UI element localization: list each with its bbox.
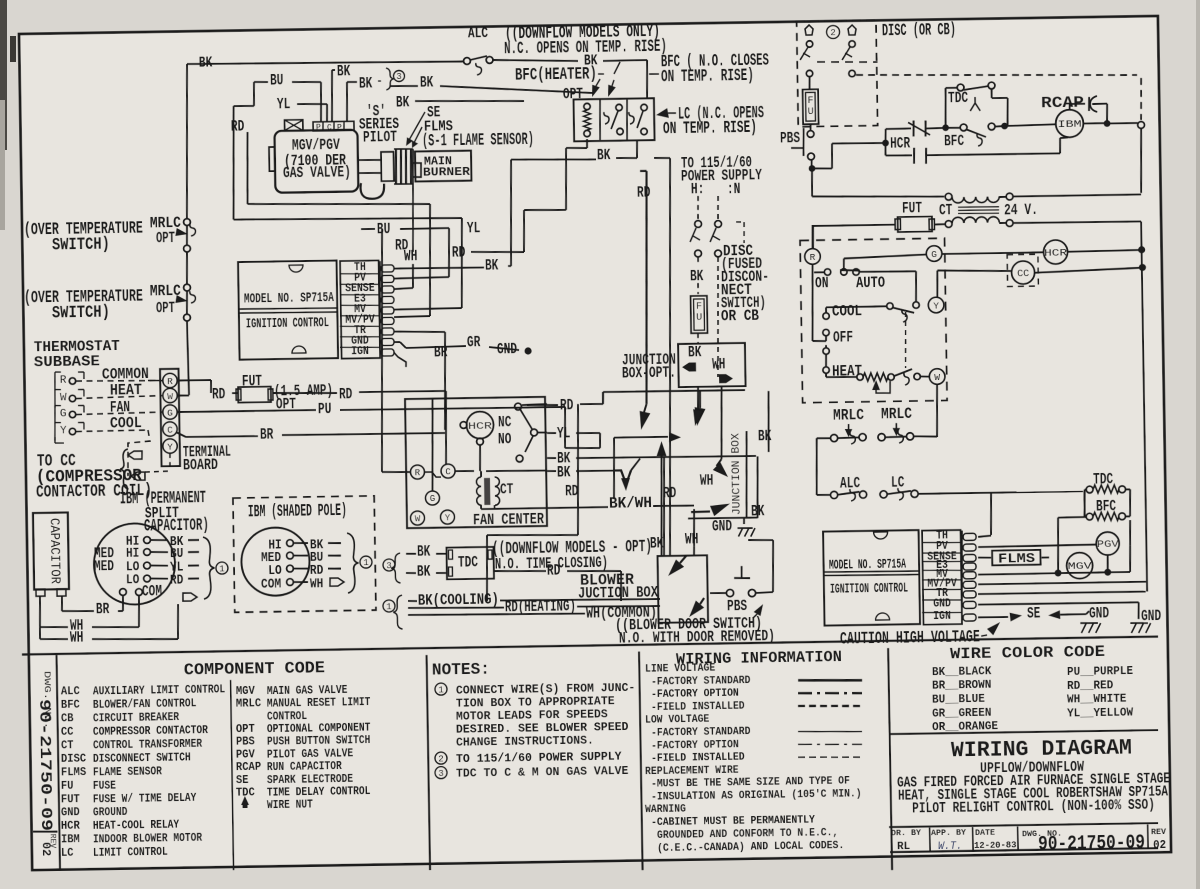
svg-text:MGV: MGV <box>1068 562 1092 573</box>
svg-text:MED: MED <box>94 559 115 575</box>
note 1 bracket blower leads <box>383 600 395 612</box>
wire RD heating <box>408 607 504 610</box>
svg-text:W: W <box>415 514 421 524</box>
junction box opt <box>678 343 745 387</box>
svg-text:MANUAL RESET LIMIT: MANUAL RESET LIMIT <box>267 696 371 711</box>
svg-text:LO: LO <box>126 572 140 588</box>
brace PSC <box>203 537 215 599</box>
wire arrows into blower box <box>668 559 684 576</box>
svg-text:RCAP: RCAP <box>236 761 261 774</box>
svg-text:RD: RD <box>637 183 651 201</box>
dashed link cool-heat <box>905 312 907 368</box>
svg-text:BK: BK <box>758 427 772 445</box>
svg-text:OFF: OFF <box>833 328 853 346</box>
svg-text:PBS: PBS <box>780 129 801 147</box>
terminal board strip <box>160 369 180 467</box>
pin strip (right module) <box>922 530 962 625</box>
svg-text:90-21750-09: 90-21750-09 <box>1038 832 1145 857</box>
wire OFF chain <box>813 340 827 343</box>
svg-text:CAPACITOR: CAPACITOR <box>45 518 61 584</box>
disconnect switch blades <box>690 228 696 242</box>
code wire nut <box>241 796 249 805</box>
svg-text:ON: ON <box>815 274 829 292</box>
wire BR capacitor <box>61 596 64 611</box>
switch ALC right <box>830 491 837 498</box>
svg-text:COMPONENT CODE: COMPONENT CODE <box>184 659 325 680</box>
wire IBM to rail <box>1083 122 1104 124</box>
svg-text:REPLACEMENT WIRE: REPLACEMENT WIRE <box>645 765 739 778</box>
transformer CT fan <box>480 471 482 477</box>
svg-text:RD: RD <box>547 561 561 579</box>
component code panel <box>427 655 431 870</box>
pin SENSE (left module) <box>381 286 394 293</box>
svg-text:G: G <box>60 408 67 420</box>
svg-text:-FIELD INSTALLED: -FIELD INSTALLED <box>651 701 745 714</box>
svg-text:IBM: IBM <box>61 833 80 846</box>
svg-text::N: :N <box>727 180 741 198</box>
switch NC NO fan <box>515 403 522 410</box>
svg-text:LC: LC <box>61 847 74 860</box>
svg-text:BOARD: BOARD <box>183 456 218 475</box>
svg-text:BK: BK <box>751 502 765 520</box>
svg-text:RD: RD <box>339 385 353 403</box>
svg-text:WH: WH <box>310 576 324 592</box>
svg-text:LOW VOLTAGE: LOW VOLTAGE <box>645 714 710 727</box>
svg-text:IBM: IBM <box>1057 120 1081 131</box>
svg-text:PU__PURPLE: PU__PURPLE <box>1067 665 1133 679</box>
valve MGV circle <box>1066 552 1092 578</box>
transformer CT secondary <box>945 221 952 228</box>
main burner box <box>415 151 471 182</box>
ignition control module U1 (left) <box>238 261 338 360</box>
wire loop to MV pin <box>234 216 462 222</box>
svg-text:FUSE W/ TIME DELAY: FUSE W/ TIME DELAY <box>93 792 197 807</box>
svg-text:NO: NO <box>498 430 512 448</box>
wire arrow lower into junction <box>691 510 710 513</box>
wire PU from G <box>177 410 316 412</box>
svg-text:P: P <box>316 123 321 132</box>
pilot burner assembly <box>381 152 394 181</box>
svg-text:HEAT-COOL RELAY: HEAT-COOL RELAY <box>93 819 179 833</box>
wire Y to CC <box>936 271 939 298</box>
svg-text:R: R <box>415 468 421 478</box>
svg-text:3: 3 <box>386 561 392 571</box>
wiring information panel <box>639 652 643 871</box>
wire primary left <box>811 168 814 196</box>
wire fan G internal <box>431 400 434 492</box>
svg-text:G: G <box>931 249 937 260</box>
pin IGN (left module) <box>381 349 394 356</box>
svg-text:BK: BK <box>688 343 702 361</box>
svg-text:PGV: PGV <box>1097 540 1119 551</box>
wire BK TDC stub 1 <box>406 553 416 555</box>
relay HCR coil circle <box>466 411 493 438</box>
svg-text:R: R <box>810 252 816 263</box>
thermostat terminal R <box>805 249 821 265</box>
svg-text:P: P <box>337 123 342 132</box>
svg-text:TDC TO C & M ON GAS VALVE: TDC TO C & M ON GAS VALVE <box>456 765 629 781</box>
wire fan internal bottom <box>481 508 547 509</box>
svg-text:BK: BK <box>199 55 213 71</box>
svg-text:RD: RD <box>565 482 579 500</box>
pin TR (right module) <box>963 591 976 598</box>
junction box bracket <box>745 431 748 518</box>
wire GND to GR GND <box>394 341 400 343</box>
svg-text:DISCONNECT SWITCH: DISCONNECT SWITCH <box>93 751 191 766</box>
svg-text:WIRING DIAGRAM: WIRING DIAGRAM <box>951 736 1132 764</box>
note 1 <box>435 683 447 695</box>
dashed wires to subbase <box>76 380 162 382</box>
wire arrow mid <box>695 407 706 426</box>
svg-text:3: 3 <box>438 769 444 779</box>
wire BFC left down <box>1058 516 1084 519</box>
svg-text:WH__WHITE: WH__WHITE <box>1067 693 1127 707</box>
wire RD down to fan C <box>445 391 447 464</box>
svg-text:GROUND: GROUND <box>93 806 128 820</box>
svg-text:HEAT: HEAT <box>110 381 143 400</box>
svg-text:MRLC: MRLC <box>236 697 261 710</box>
wire nut 1 <box>805 25 813 35</box>
svg-text:MGV: MGV <box>236 685 255 698</box>
wire secondary left to R <box>813 225 895 226</box>
wire secondary right rail <box>1013 221 1141 224</box>
svg-text:CONTROL: CONTROL <box>267 710 307 724</box>
capacitor C1 box <box>33 512 69 589</box>
motor IBM shaded pole dashed box <box>233 496 376 613</box>
svg-text:MODEL NO. SP715A: MODEL NO. SP715A <box>829 557 907 573</box>
svg-text:RD: RD <box>212 385 226 403</box>
svg-text:FUSE: FUSE <box>93 779 116 792</box>
wire BK row2 <box>547 470 556 472</box>
svg-text:BFC(HEATER): BFC(HEATER) <box>515 65 597 85</box>
svg-text:FUT: FUT <box>61 793 80 806</box>
svg-text:RD: RD <box>170 572 184 588</box>
svg-text:FLMS: FLMS <box>998 551 1035 568</box>
svg-text:MRLC: MRLC <box>150 282 182 300</box>
svg-text:2: 2 <box>830 28 836 38</box>
wire TH riser <box>990 494 991 536</box>
svg-text:3: 3 <box>396 72 402 82</box>
svg-text:FAN CENTER: FAN CENTER <box>473 510 545 529</box>
valve top connector with X <box>284 120 302 131</box>
svg-text:COOL: COOL <box>832 302 862 320</box>
svg-text:BK: BK <box>557 463 571 481</box>
resistor OPT vertical <box>584 103 591 110</box>
terminal C board <box>163 422 178 437</box>
svg-text:MRLC: MRLC <box>881 405 913 423</box>
svg-text:CHANGE INSTRUCTIONS.: CHANGE INSTRUCTIONS. <box>456 734 594 749</box>
svg-text:FLMS: FLMS <box>61 766 86 779</box>
svg-text:LIMIT CONTROL: LIMIT CONTROL <box>93 846 168 860</box>
wire BK TDC stub 2 <box>406 572 416 574</box>
wire G to fan switch <box>844 254 926 258</box>
pin MV (left module) <box>381 307 394 314</box>
svg-text:ON TEMP. RISE): ON TEMP. RISE) <box>661 67 754 87</box>
fan center box <box>405 397 547 528</box>
terminal W board <box>163 388 178 403</box>
wires below junction box opt <box>697 386 700 410</box>
thermostat terminal G <box>926 246 942 262</box>
svg-text:CT: CT <box>939 201 953 219</box>
svg-text:BK: BK <box>485 256 499 274</box>
fuse FU mid <box>691 296 708 334</box>
fan terminal Y <box>440 510 454 524</box>
terminal Y board <box>163 439 178 454</box>
brace shaded pole <box>347 533 359 593</box>
pushbutton PBS blower door <box>726 589 733 596</box>
resistor TDC <box>1086 486 1093 493</box>
wire IGN diagonal <box>394 352 406 367</box>
svg-text:G: G <box>167 407 173 418</box>
svg-text:TIME DELAY CONTROL: TIME DELAY CONTROL <box>267 785 371 800</box>
svg-text:IGN: IGN <box>351 344 369 358</box>
pin GND (left module) <box>381 338 394 345</box>
svg-text:NC: NC <box>498 413 512 431</box>
pin PV (right module) <box>963 544 976 551</box>
wire nut 2 <box>848 25 856 35</box>
svg-text:CIRCUIT BREAKER: CIRCUIT BREAKER <box>93 711 179 725</box>
fan terminal W <box>410 511 424 525</box>
svg-text:PU: PU <box>318 400 332 418</box>
svg-text:90-21750-09: 90-21750-09 <box>35 699 55 831</box>
svg-text:BU__BLUE: BU__BLUE <box>932 693 985 707</box>
svg-text:RD: RD <box>560 396 574 414</box>
svg-text:GND: GND <box>1089 604 1109 622</box>
switch COOL <box>826 306 886 307</box>
wire LC chain to TDC loop <box>918 491 1083 494</box>
wire fan R internal <box>382 471 410 474</box>
svg-text:C: C <box>327 123 332 132</box>
wire W down <box>936 384 938 437</box>
pin IGN (right module) <box>963 614 976 621</box>
svg-text:BK: BK <box>396 93 410 111</box>
svg-text:HCR: HCR <box>61 820 80 833</box>
svg-text:ALC: ALC <box>468 26 489 42</box>
dashed DISC box fragment <box>736 221 744 223</box>
svg-text:-FACTORY OPTION: -FACTORY OPTION <box>651 739 739 752</box>
pin MV (right module) <box>963 572 976 579</box>
note 2 circled <box>826 25 839 38</box>
note 3 <box>435 767 447 779</box>
wire WH flame sensor to SENSE <box>411 149 414 252</box>
wire BK row1 <box>455 470 474 473</box>
pin E3 (right module) <box>963 563 976 570</box>
wire MV/PV row <box>978 582 1146 585</box>
svg-text:PBS: PBS <box>727 597 748 615</box>
wire BR from C <box>176 432 186 437</box>
contactor CC circle <box>1007 254 1038 286</box>
svg-text:-FACTORY STANDARD: -FACTORY STANDARD <box>651 726 751 740</box>
pin TH (right module) <box>963 533 976 540</box>
wire color code panel <box>888 648 892 870</box>
svg-text:Y: Y <box>167 441 173 452</box>
svg-text:DISC: DISC <box>61 752 86 765</box>
dashed DISC OR CB box <box>797 20 878 127</box>
wire IGN SE spark <box>978 616 1008 619</box>
wires to CC arrows <box>169 453 171 470</box>
svg-text:F: F <box>696 302 702 313</box>
terminal G board <box>163 405 178 420</box>
svg-text:WIRE NUT: WIRE NUT <box>267 799 313 813</box>
thermostat terminal Y <box>928 297 944 313</box>
switch MRLC r1 <box>830 434 837 441</box>
fan terminal C <box>441 464 455 478</box>
wire arrow to junction right <box>614 436 668 439</box>
svg-text:BU: BU <box>270 71 284 89</box>
pin MV/PV (left module) <box>381 317 394 324</box>
switch MRLC over-temp 1 <box>184 219 191 226</box>
svg-text:DISC (OR CB): DISC (OR CB) <box>882 21 956 41</box>
svg-text:OPT: OPT <box>156 299 176 317</box>
switch MRLC r2 <box>878 434 885 441</box>
motor IBM right circle <box>1056 109 1084 137</box>
title block signature strip <box>889 823 1158 828</box>
svg-text:C: C <box>167 424 173 435</box>
svg-text:BFC: BFC <box>944 132 965 150</box>
fan terminal G <box>425 491 439 505</box>
svg-text:W: W <box>60 392 67 404</box>
wire GND row <box>978 602 1139 605</box>
svg-text:BK: BK <box>359 74 373 92</box>
wire BK cooling <box>408 600 417 602</box>
svg-text:DR. BY: DR. BY <box>891 828 922 838</box>
capacitor terminals <box>36 589 45 596</box>
wire WH capacitor 2 <box>39 627 41 639</box>
flame sensor FLMS box <box>978 556 991 558</box>
svg-text:PUSH BUTTON SWITCH: PUSH BUTTON SWITCH <box>267 734 371 749</box>
pin GND (right module) <box>963 601 976 608</box>
svg-text:REV: REV <box>1151 827 1167 837</box>
svg-text:MRLC: MRLC <box>833 406 865 424</box>
wire dashed rail right <box>856 71 1137 80</box>
svg-text:BK__BLACK: BK__BLACK <box>932 665 992 679</box>
motor COM taps <box>119 589 126 596</box>
svg-text:F: F <box>807 96 813 107</box>
svg-text:-FACTORY OPTION: -FACTORY OPTION <box>651 688 739 701</box>
svg-text:COM: COM <box>261 576 281 592</box>
svg-text:IGNITION CONTROL: IGNITION CONTROL <box>830 581 908 597</box>
svg-text:JUNCTION BOX: JUNCTION BOX <box>730 433 743 516</box>
svg-text:SWITCH): SWITCH) <box>52 236 110 256</box>
svg-text:WARNING: WARNING <box>645 804 686 817</box>
svg-text:BR: BR <box>96 600 110 618</box>
svg-text:IGN: IGN <box>933 609 951 623</box>
valve PGV circle <box>1096 532 1119 555</box>
wire WH capacitor 1 <box>38 596 41 627</box>
pin strip (left module) <box>340 260 380 358</box>
svg-text:DESIRED. SEE BLOWER SPEED: DESIRED. SEE BLOWER SPEED <box>456 721 629 737</box>
wire BK THpin elbow <box>394 267 484 269</box>
svg-text:FLAME SENSOR: FLAME SENSOR <box>93 765 162 779</box>
svg-text:HCR: HCR <box>890 134 911 152</box>
svg-text:GND: GND <box>497 340 517 358</box>
svg-text:GR__GREEN: GR__GREEN <box>932 707 992 721</box>
svg-text:OPT: OPT <box>563 85 584 103</box>
svg-text:PGV: PGV <box>236 748 255 761</box>
svg-text:ON TEMP. RISE): ON TEMP. RISE) <box>663 119 757 139</box>
svg-text:H:: H: <box>691 180 705 198</box>
title block <box>890 730 1158 734</box>
svg-text:AUTO: AUTO <box>856 274 885 292</box>
svg-text:2: 2 <box>438 754 444 764</box>
terminal R board <box>163 373 178 388</box>
note 2 <box>435 752 447 764</box>
svg-text:COM: COM <box>142 582 162 600</box>
svg-text:IBM (SHADED POLE): IBM (SHADED POLE) <box>248 502 347 523</box>
thermostat terminal W <box>929 369 945 385</box>
switch ALC top <box>464 58 471 65</box>
svg-text:CONTROL TRANSFORMER: CONTROL TRANSFORMER <box>93 738 202 753</box>
svg-text:NOTES:: NOTES: <box>432 661 490 681</box>
svg-text:1: 1 <box>386 602 392 612</box>
svg-text:BK: BK <box>420 73 434 91</box>
svg-text:BOX-OPT.: BOX-OPT. <box>622 364 676 383</box>
scan edge artifacts <box>0 0 7 150</box>
svg-text:RD: RD <box>231 117 245 135</box>
svg-text:INDOOR BLOWER MOTOR: INDOOR BLOWER MOTOR <box>93 832 202 847</box>
svg-text:C: C <box>445 467 451 477</box>
svg-text:OR CB: OR CB <box>721 307 760 326</box>
wire RD from TDC <box>494 570 546 572</box>
svg-text:N.C. OPENS ON TEMP. RISE): N.C. OPENS ON TEMP. RISE) <box>504 38 667 60</box>
svg-text:U: U <box>696 313 702 324</box>
switch BFC right <box>960 124 967 131</box>
svg-text:BK: BK <box>597 146 611 164</box>
svg-text:BK(COOLING): BK(COOLING) <box>418 590 499 609</box>
relay HCR right circle <box>941 252 1043 254</box>
wire PGV down <box>1106 555 1108 569</box>
svg-text:CC: CC <box>1017 269 1029 280</box>
wire MV row <box>978 573 1055 574</box>
svg-text:OPT: OPT <box>156 229 176 247</box>
table frame top <box>22 637 1158 655</box>
ignition control module U2 (right) <box>823 530 920 625</box>
wire BK/WH line <box>547 506 608 509</box>
svg-text:02: 02 <box>1153 839 1166 852</box>
valve left tab <box>269 147 275 171</box>
wire right rail down to primary <box>1140 128 1142 193</box>
svg-text:HCR: HCR <box>1044 248 1067 259</box>
thermostat dashed box <box>800 238 947 403</box>
svg-text:GR: GR <box>467 333 481 351</box>
svg-text:WH: WH <box>700 471 714 489</box>
svg-text:PBS: PBS <box>236 736 255 749</box>
wire WH common <box>408 612 585 616</box>
svg-text:BLOWER/FAN CONTROL: BLOWER/FAN CONTROL <box>93 697 197 712</box>
svg-text:SE: SE <box>236 774 249 787</box>
svg-text:R: R <box>60 375 67 387</box>
transformer core <box>958 206 999 209</box>
svg-text:BK: BK <box>690 267 704 285</box>
svg-text:BK/WH: BK/WH <box>609 494 652 513</box>
wire YL row <box>547 432 556 434</box>
svg-text:BFC: BFC <box>61 699 80 712</box>
svg-text:YL: YL <box>467 219 481 237</box>
relay coil HCR <box>884 143 886 156</box>
svg-text:Y: Y <box>60 425 67 437</box>
svg-text:W: W <box>934 372 940 383</box>
svg-text:YL: YL <box>557 424 571 442</box>
pin PV (left module) <box>381 275 394 282</box>
svg-text:AUXILIARY LIMIT CONTROL: AUXILIARY LIMIT CONTROL <box>93 684 225 699</box>
burner hook <box>413 163 421 177</box>
switch TDC top <box>945 88 946 128</box>
svg-text:APP. BY: APP. BY <box>931 828 967 839</box>
switch LC right <box>880 491 887 498</box>
svg-text:-FIELD INSTALLED: -FIELD INSTALLED <box>651 752 745 765</box>
svg-text:G: G <box>430 494 436 504</box>
svg-text:Y: Y <box>933 300 939 311</box>
